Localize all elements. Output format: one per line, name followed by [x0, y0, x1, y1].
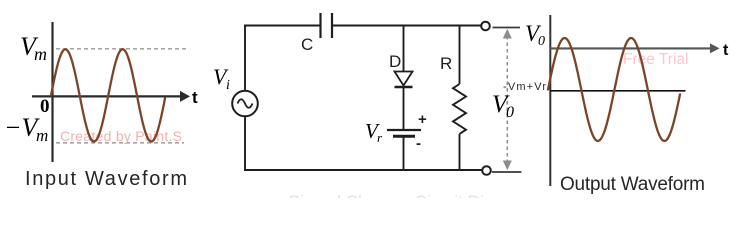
svg-text:t: t — [192, 88, 198, 107]
label Vi — [213, 64, 230, 93]
svg-text:-: - — [416, 135, 421, 152]
battery Vr short plate — [393, 135, 415, 138]
svg-text:-Vm+Vr: -Vm+Vr — [503, 81, 546, 93]
wire battery to bottom — [403, 137, 405, 171]
input graph t-axis — [32, 91, 190, 102]
svg-text:0: 0 — [506, 104, 514, 121]
label V0 big — [492, 91, 514, 121]
svg-text:Free Trial: Free Trial — [623, 51, 688, 68]
svg-text:i: i — [226, 78, 230, 93]
diode D cathode bar — [395, 86, 413, 88]
svg-text:D: D — [389, 52, 401, 71]
dimension arrow up — [503, 29, 512, 39]
svg-text:r: r — [377, 130, 383, 145]
wire resistor branch upper — [459, 26, 461, 85]
wire left vertical upper — [244, 25, 246, 92]
wire diode branch upper — [403, 26, 405, 73]
dimension bottom bar — [492, 171, 522, 173]
dimension dashed line V0 — [506, 36, 508, 161]
svg-text:m: m — [36, 126, 48, 145]
source Vi circle — [232, 91, 258, 117]
resistor R zigzag — [453, 84, 466, 134]
wire bottom horizontal — [244, 169, 482, 171]
svg-text:Input Waveform: Input Waveform — [25, 168, 187, 190]
svg-text:+: + — [418, 111, 427, 128]
output sine waveform — [548, 38, 680, 141]
source Vi sine symbol — [238, 99, 253, 108]
output graph y-axis — [549, 15, 551, 186]
dimension top bar — [493, 27, 521, 29]
terminal top circle — [481, 22, 490, 31]
svg-text:0: 0 — [40, 96, 50, 117]
wire top right horizontal — [333, 25, 481, 27]
input graph y-axis — [51, 22, 53, 162]
wire left vertical lower — [244, 116, 246, 171]
dimension arrow down — [503, 161, 512, 171]
terminal bottom circle — [482, 166, 491, 175]
diode D triangle — [395, 72, 413, 86]
input sine waveform — [51, 49, 165, 141]
svg-text:Output Waveform: Output Waveform — [560, 174, 705, 195]
battery Vr long plate — [387, 129, 421, 131]
capacitor C1 right plate — [331, 13, 333, 38]
wire diode to battery — [403, 87, 405, 129]
svg-text:R: R — [440, 54, 452, 73]
input Vm dashed level line — [56, 48, 186, 50]
svg-text:Biased Clamper Circuit Diagram: Biased Clamper Circuit Diagram — [289, 192, 532, 198]
wire top left horizontal — [244, 25, 320, 27]
label Vm — [20, 32, 47, 64]
label V0 axis — [525, 21, 545, 49]
output reference level line — [550, 90, 686, 92]
label -Vm — [4, 113, 48, 145]
svg-text:t: t — [723, 42, 729, 59]
svg-text:C: C — [301, 35, 313, 54]
output graph t-axis — [550, 43, 720, 53]
capacitor C1 left plate — [319, 13, 321, 38]
svg-text:m: m — [34, 44, 47, 64]
svg-text:Created by Paint.S: Created by Paint.S — [60, 128, 182, 144]
svg-text:0: 0 — [538, 34, 545, 49]
input -Vm dashed level line — [56, 142, 184, 144]
wire resistor to bottom — [459, 134, 461, 171]
label Vr — [365, 119, 383, 145]
